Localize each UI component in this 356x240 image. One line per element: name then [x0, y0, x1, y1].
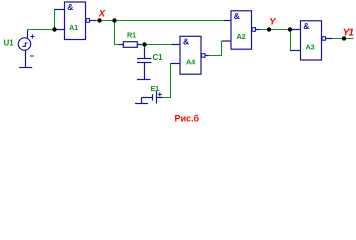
svg-text:X: X — [98, 8, 106, 19]
svg-text:&: & — [67, 2, 73, 12]
svg-text:Y1: Y1 — [343, 28, 355, 39]
svg-text:&: & — [183, 37, 189, 47]
svg-text:R1: R1 — [127, 30, 136, 39]
svg-text:&: & — [234, 11, 240, 21]
svg-text:A2: A2 — [237, 32, 246, 41]
svg-text:C1: C1 — [153, 53, 164, 62]
svg-text:E1: E1 — [151, 84, 160, 93]
svg-text:A3: A3 — [306, 42, 315, 51]
svg-text:U1: U1 — [4, 39, 15, 48]
svg-text:A1: A1 — [69, 23, 78, 32]
svg-text:&: & — [303, 21, 309, 31]
svg-text:Рис.б: Рис.б — [175, 114, 200, 124]
svg-text:A4: A4 — [186, 57, 196, 66]
